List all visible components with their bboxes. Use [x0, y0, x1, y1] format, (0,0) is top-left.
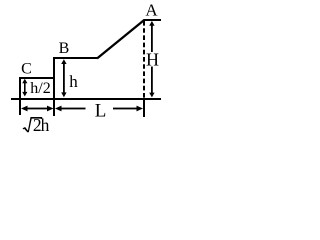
dimension √2h (double arrow below ground, left span): [21, 106, 54, 112]
svg-text:h/2: h/2: [30, 80, 50, 97]
ramp (incline from B platform up to A): [97, 20, 144, 59]
arrow H (double-headed vertical): [149, 21, 154, 98]
arrow h/2 (double-headed vertical): [22, 79, 27, 97]
dashed drop line below A corner: [143, 21, 145, 98]
platform C top: [19, 77, 55, 79]
ground line: [11, 98, 161, 100]
platform B top: [53, 57, 97, 59]
white backing for H label: [147, 52, 159, 67]
svg-text:h: h: [41, 115, 50, 135]
right tick below ground: [143, 100, 145, 117]
svg-text:C: C: [21, 61, 32, 78]
label √2h with radical: [23, 115, 50, 135]
dimension L (arrows outward, label gap in middle): [55, 106, 143, 112]
wall C (left edge, continues below ground as tick): [19, 77, 21, 115]
svg-text:h: h: [69, 72, 78, 91]
arrow h (double-headed vertical): [61, 59, 66, 97]
svg-text:B: B: [59, 40, 70, 57]
svg-text:L: L: [95, 101, 107, 122]
wall B (step edge, continues below ground as tick): [53, 57, 55, 116]
svg-text:H: H: [146, 50, 159, 70]
top platform at A: [144, 19, 162, 21]
svg-text:A: A: [145, 0, 158, 19]
physics figure: steps with ramp, heights h/2, h, H, lengths √2h and L: [0, 0, 166, 136]
